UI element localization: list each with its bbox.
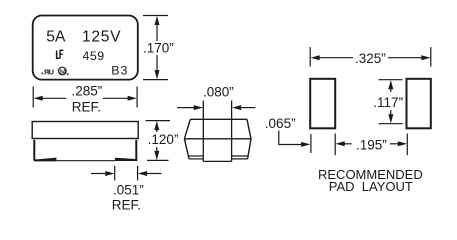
svg-text:.051”: .051”	[113, 183, 144, 198]
svg-text:.170”: .170”	[143, 41, 174, 56]
svg-text:.065”: .065”	[265, 116, 296, 131]
svg-text:REF.: REF.	[72, 99, 101, 114]
end view left foot	[188, 156, 203, 159]
svg-text:.195”: .195”	[356, 138, 387, 153]
dimension .285" REF.	[33, 87, 137, 108]
fuse end view outline	[184, 119, 251, 159]
caption PAD LAYOUT	[329, 179, 413, 194]
label 5A	[46, 29, 66, 46]
pad left-edge extension line	[310, 134, 312, 153]
UL recognized mark	[41, 67, 53, 76]
right pad	[407, 79, 431, 129]
dimension .051" REF.	[91, 166, 162, 181]
svg-text:.285”: .285”	[72, 83, 103, 98]
svg-text:.080”: .080”	[203, 85, 234, 100]
fuse top view body	[33, 16, 138, 80]
svg-text:5A: 5A	[46, 29, 66, 46]
label B3	[111, 64, 128, 78]
dimension .325"	[310, 47, 431, 67]
side view left end cap	[34, 140, 56, 162]
fuse side view body	[32, 122, 138, 139]
svg-text:B3: B3	[111, 64, 128, 78]
label 459	[83, 49, 105, 63]
CSA mark	[59, 67, 69, 75]
dimension .117"	[379, 80, 403, 124]
svg-text:ЯU: ЯU	[44, 67, 54, 76]
end view terminal tab	[203, 101, 231, 162]
Littelfuse LF logo	[57, 50, 64, 59]
dimension .170"	[143, 16, 168, 80]
svg-text:REF.: REF.	[112, 197, 141, 212]
svg-text:SA: SA	[59, 70, 66, 76]
svg-text:PAD LAYOUT: PAD LAYOUT	[329, 179, 413, 194]
end view right foot	[232, 156, 249, 159]
svg-text:.325”: .325”	[355, 51, 386, 66]
caption RECOMMENDED	[318, 167, 423, 182]
svg-text:125V: 125V	[82, 29, 121, 46]
label 125V	[82, 29, 121, 46]
svg-text:459: 459	[83, 49, 105, 63]
dimension .120"	[146, 121, 170, 161]
side view right end cap	[115, 140, 137, 161]
dimension .065" leader	[265, 116, 296, 131]
left pad	[310, 79, 335, 129]
svg-text:.120”: .120”	[148, 132, 179, 147]
svg-text:.117”: .117”	[373, 95, 403, 110]
dimension .080"	[177, 107, 255, 109]
side view body bottom edge	[56, 160, 115, 162]
dimension .195"	[335, 134, 407, 156]
